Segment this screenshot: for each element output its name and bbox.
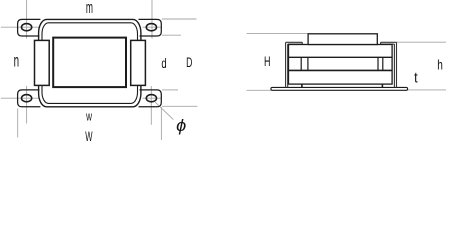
frame mounting tab right bbox=[381, 84, 383, 87]
clamp frame left top flange outer bbox=[286, 41, 303, 43]
clamp frame left top flange inner bbox=[288, 43, 303, 45]
dimension extension line d bottom bbox=[162, 89, 178, 91]
hole centerline horizontal top-left bbox=[1, 26, 40, 28]
dimension extension line w right (from bottom-right hole) bbox=[150, 86, 152, 125]
mounting hole top-right bbox=[146, 24, 156, 31]
clamp frame right top flange inner bbox=[381, 43, 395, 45]
lamination joint line upper bbox=[289, 56, 393, 58]
dimension extension line d top bbox=[162, 34, 181, 36]
coil tube wall left bbox=[307, 57, 309, 70]
coil bobbin top (side view) bbox=[308, 34, 377, 45]
svg-text:m: m bbox=[86, 0, 93, 17]
dimension extension line H bottom bbox=[247, 89, 272, 91]
clamp frame left channel outer bbox=[285, 42, 287, 87]
dimension extension line D bottom bbox=[162, 105, 198, 107]
clamp frame right top flange outer bbox=[381, 41, 397, 43]
svg-text:W: W bbox=[85, 130, 92, 144]
dimension extension line D top bbox=[162, 18, 197, 20]
clamp frame right channel inner bbox=[393, 44, 395, 87]
lamination joint line lower bbox=[289, 69, 393, 71]
dimension extension line m left bbox=[26, 0, 28, 19]
base plate (side view) bbox=[271, 87, 408, 90]
bobbin flange left bbox=[35, 40, 50, 85]
leader line phi bbox=[155, 102, 173, 119]
svg-text:D: D bbox=[186, 55, 192, 71]
dimension extension line H top bbox=[247, 33, 309, 35]
mounting hole bottom-left bbox=[22, 95, 32, 102]
dimension extension line w left (from bottom-left hole) bbox=[26, 86, 28, 124]
lamination stack face (side view) bbox=[289, 45, 393, 85]
clamp frame right flange lip bbox=[380, 42, 382, 46]
lamination stack (bold rectangle) bbox=[53, 38, 126, 88]
svg-text:w: w bbox=[85, 110, 92, 124]
hole centerline horizontal bottom-right bbox=[143, 97, 162, 99]
hole centerline vertical top-right bbox=[151, 19, 153, 39]
clamp frame left flange lip bbox=[301, 42, 303, 46]
mounting ear top-left bbox=[18, 19, 41, 36]
cover inner lip line bbox=[42, 23, 138, 104]
clamp frame left channel inner bbox=[287, 44, 289, 87]
mounting ear bottom-right bbox=[139, 90, 162, 107]
dimension extension line m right bbox=[151, 0, 153, 19]
dimension extension line W left (from ear outer edge) bbox=[17, 109, 19, 138]
frame mounting tab left bbox=[301, 84, 303, 87]
mounting ear bottom-left bbox=[18, 90, 41, 107]
svg-text:h: h bbox=[437, 57, 443, 73]
svg-text:ϕ: ϕ bbox=[176, 116, 186, 135]
cover outline (top view outer shell) bbox=[39, 19, 141, 106]
svg-text:H: H bbox=[264, 54, 270, 69]
hole centerline vertical top-left bbox=[26, 19, 28, 39]
coil tube wall right bbox=[377, 57, 379, 70]
svg-text:n: n bbox=[14, 52, 19, 72]
coil tube wall far-left bbox=[300, 57, 302, 70]
mounting hole bottom-right bbox=[146, 95, 156, 102]
mounting ear top-right bbox=[139, 19, 162, 36]
hole centerline horizontal top-right bbox=[143, 26, 162, 28]
clamp frame right channel outer bbox=[396, 42, 398, 87]
mounting hole top-left bbox=[22, 24, 32, 31]
svg-text:t: t bbox=[414, 69, 418, 86]
dimension extension line W right (from ear outer edge) bbox=[160, 107, 162, 140]
hole centerline horizontal bottom-left bbox=[1, 97, 40, 99]
bobbin flange right bbox=[131, 40, 146, 85]
svg-text:d: d bbox=[161, 55, 166, 71]
dimension extension line h bottom bbox=[408, 89, 446, 91]
coil tube wall far-right bbox=[382, 57, 384, 70]
dimension extension line h top bbox=[397, 41, 447, 43]
